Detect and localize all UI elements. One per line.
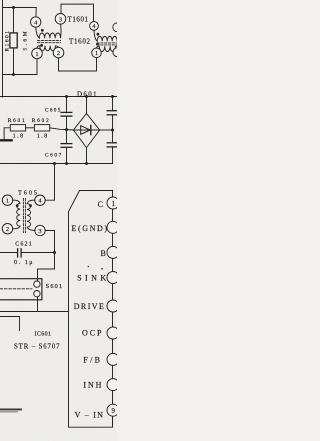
svg-text:3: 3 — [38, 228, 41, 235]
pin 4 — [35, 195, 45, 205]
winding T605 primary — [13, 200, 20, 229]
wire left frame edge — [2, 0, 4, 97]
svg-text:T1602: T1602 — [69, 38, 91, 46]
resistor R601 — [4, 118, 26, 139]
polarity dot — [96, 43, 99, 46]
winding T605 secondary — [27, 200, 35, 230]
wire cut trace left — [0, 317, 20, 331]
svg-text:1.8: 1.8 — [37, 133, 47, 139]
wire lower return line left — [3, 74, 38, 76]
pin 4 — [90, 22, 99, 31]
node junction R1601 top — [12, 6, 15, 9]
pin F/B — [107, 353, 119, 365]
pin V-IN — [107, 404, 119, 416]
svg-text:1.8: 1.8 — [13, 133, 23, 139]
svg-text:IC601: IC601 — [35, 331, 52, 337]
pin 2 — [2, 224, 12, 234]
svg-text:DRIVE: DRIVE — [74, 302, 104, 311]
capacitor C605 — [45, 97, 72, 144]
polarity dot — [29, 204, 32, 207]
pin E(GND) — [107, 221, 119, 233]
IC U601 outline — [69, 191, 113, 428]
svg-text:B: B — [101, 249, 106, 258]
core T605 — [23, 199, 25, 233]
pin 2 — [53, 47, 64, 58]
wire R602 to bridge — [50, 128, 74, 130]
winding T1601 secondary — [37, 46, 59, 51]
IC right edge segments — [112, 190, 114, 427]
wire S601 to IC drive — [37, 297, 39, 312]
resistor R1601 — [4, 8, 28, 75]
capacitor filter right bottom — [107, 143, 117, 164]
node junction C607 bottom — [65, 162, 68, 165]
polarity dot — [16, 204, 19, 207]
capacitor C621 — [0, 241, 55, 266]
pin 1 — [32, 48, 43, 59]
node junction bridge bottom — [85, 162, 88, 165]
polarity dot — [40, 44, 43, 47]
pin 4 — [31, 17, 41, 27]
svg-text:9: 9 — [111, 408, 115, 415]
pin 1 — [2, 195, 12, 205]
wire T605 pin4 riser — [45, 164, 54, 201]
transformer T605 — [2, 190, 45, 236]
transformer T1602 — [69, 22, 122, 58]
svg-text:4: 4 — [93, 24, 96, 30]
node junction C621 — [53, 251, 56, 254]
svg-text:STR – S6707: STR – S6707 — [14, 344, 60, 351]
capacitor filter right top — [107, 97, 117, 143]
node junction right vertex — [111, 129, 114, 132]
pin 2 edge — [113, 48, 122, 57]
wire stub bottom left — [0, 408, 21, 410]
pin 3 — [55, 13, 66, 24]
node junction R1601 bottom — [12, 73, 15, 76]
wire top AC line — [3, 7, 37, 9]
svg-text:1: 1 — [111, 201, 114, 208]
svg-text:S601: S601 — [46, 283, 63, 290]
pin 1 — [92, 48, 102, 58]
svg-text:1: 1 — [6, 198, 9, 205]
polarity dot — [41, 29, 44, 32]
switch S601 — [0, 279, 62, 300]
wire bridge right vertex — [100, 129, 113, 131]
pin B — [107, 246, 119, 258]
wire DC bus top — [0, 96, 117, 98]
transformer T1601 — [31, 4, 94, 59]
svg-text:1: 1 — [35, 51, 38, 58]
wire T1601 pin2 to T1602 pin1 — [59, 58, 97, 71]
svg-text:OCP: OCP — [82, 328, 102, 337]
resistor R602 — [26, 118, 50, 139]
winding T1602 secondary — [97, 46, 118, 51]
core T1601 — [38, 40, 61, 42]
node junction R602 C605 — [65, 128, 68, 131]
pin OCP — [107, 327, 119, 339]
svg-text:3: 3 — [59, 16, 62, 23]
pin DRIVE — [107, 300, 119, 312]
node junction right filter top — [111, 95, 114, 98]
diode bridge D601 — [73, 97, 99, 164]
svg-text:T1601: T1601 — [68, 16, 89, 24]
diode element — [81, 126, 91, 135]
wire T605 pin3 drop — [38, 231, 55, 281]
capacitor C607 — [45, 144, 72, 164]
svg-text:2: 2 — [57, 50, 60, 57]
pin 3 — [35, 225, 45, 235]
ground — [0, 139, 12, 141]
wire pin3 riser — [61, 4, 94, 22]
winding T1602 primary — [94, 30, 117, 41]
polarity dot — [97, 33, 100, 36]
pin SINK — [107, 272, 119, 284]
node junction C605 top — [65, 95, 68, 98]
winding T1601 primary — [36, 24, 61, 38]
svg-text:SINK: SINK — [77, 274, 106, 283]
svg-text:2: 2 — [6, 226, 9, 233]
pin INH — [107, 379, 119, 391]
core T1602 — [97, 43, 117, 45]
pin 3 edge — [113, 23, 122, 32]
node junction D601 top — [85, 95, 88, 98]
pin C — [107, 197, 119, 209]
wire ground bus — [0, 163, 113, 165]
node junction T605 top — [53, 162, 56, 165]
svg-text:1: 1 — [95, 51, 98, 57]
svg-text:R1601: R1601 — [4, 31, 10, 52]
svg-text:C605: C605 — [45, 108, 61, 114]
svg-text:C: C — [98, 200, 103, 209]
svg-text:F/B: F/B — [83, 356, 100, 365]
